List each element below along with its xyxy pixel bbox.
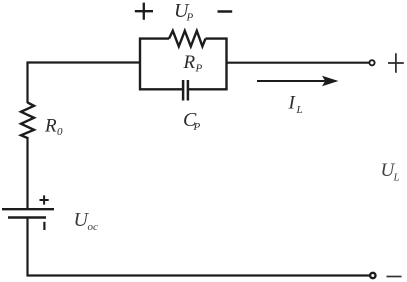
RC box top side left stub xyxy=(139,37,169,39)
node terminal top right xyxy=(369,60,374,65)
svg-text:L: L xyxy=(296,104,303,116)
capacitor CP right plate xyxy=(187,80,190,101)
minus sign above box xyxy=(218,10,233,13)
RC box right side xyxy=(225,38,227,91)
wire left vertical lower xyxy=(26,219,28,277)
RC box bottom side left stub xyxy=(139,88,182,90)
RC box left side xyxy=(139,38,141,91)
resistor R0 xyxy=(21,103,34,139)
node terminal bottom right xyxy=(370,273,375,278)
RC box top side right stub xyxy=(206,37,228,39)
RC box bottom side right stub xyxy=(189,88,228,90)
svg-text:P: P xyxy=(186,12,194,24)
resistor RP xyxy=(169,31,206,47)
wire left vertical upper xyxy=(26,62,28,104)
svg-text:0: 0 xyxy=(57,126,63,138)
svg-text:I: I xyxy=(288,93,297,114)
battery minus mark xyxy=(43,222,45,230)
svg-text:L: L xyxy=(393,172,400,184)
minus sign output xyxy=(387,276,402,278)
svg-text:R: R xyxy=(44,116,57,137)
wire top horizontal left segment xyxy=(27,61,141,63)
wire left vertical middle xyxy=(26,137,28,209)
svg-text:P: P xyxy=(193,121,201,133)
svg-text:P: P xyxy=(195,63,203,75)
capacitor CP left plate xyxy=(182,80,185,101)
battery Uoc negative plate xyxy=(8,216,46,219)
svg-text:R: R xyxy=(183,52,196,73)
plus sign above box xyxy=(135,3,153,20)
wire top horizontal right segment xyxy=(227,62,370,64)
battery Uoc positive plate xyxy=(2,208,54,210)
current arrow IL xyxy=(257,80,325,82)
wire bottom horizontal xyxy=(27,274,371,276)
plus sign output xyxy=(388,53,404,73)
svg-text:oc: oc xyxy=(88,221,99,233)
battery plus sign xyxy=(40,195,49,204)
